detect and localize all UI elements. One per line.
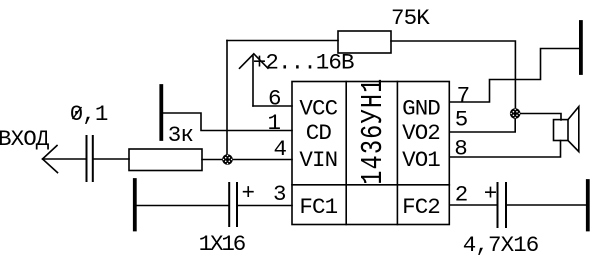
wire VO2 pin5 to node B	[449, 114, 515, 133]
svg-text:2: 2	[455, 182, 468, 208]
wire R1 to node A	[202, 159, 228, 161]
svg-text:+2...16В: +2...16В	[253, 50, 354, 76]
wire C3 to ground bar 4	[507, 204, 586, 206]
IC separator	[292, 184, 449, 186]
wire C1 to R1	[94, 158, 129, 160]
wire node A up to feedback	[226, 41, 228, 160]
svg-text:VIN: VIN	[299, 147, 337, 173]
speaker horn	[568, 107, 579, 152]
wire GND pin7 to ground bar 3	[449, 49, 579, 103]
svg-text:1: 1	[268, 110, 281, 136]
svg-text:4,7X16: 4,7X16	[463, 232, 539, 258]
IC inner line right	[396, 82, 398, 225]
svg-text:+: +	[484, 180, 497, 206]
ground bar 3	[579, 22, 583, 73]
IC U1 box	[292, 82, 449, 225]
wire C2 to ground bar 2	[137, 205, 228, 207]
node A junction dot	[222, 154, 233, 165]
svg-text:75K: 75K	[391, 5, 430, 31]
wire VO1 pin8 to speaker bottom	[449, 141, 560, 158]
speaker BA1 box	[554, 120, 569, 141]
wire VCC pin6	[253, 105, 292, 107]
svg-text:3: 3	[273, 181, 286, 207]
svg-text:3к: 3к	[168, 122, 194, 148]
svg-text:VO1: VO1	[402, 147, 440, 173]
svg-text:1X16: 1X16	[199, 231, 246, 257]
capacitor C1 0,1	[87, 136, 93, 181]
ground bar 1	[159, 86, 163, 139]
svg-text:8: 8	[454, 136, 467, 162]
svg-text:VCC: VCC	[299, 96, 337, 122]
resistor R1 3k	[129, 149, 202, 171]
svg-text:7: 7	[457, 83, 470, 109]
ground bar 4	[586, 181, 590, 230]
capacitor C2 1X16	[229, 183, 237, 226]
svg-text:5: 5	[455, 107, 468, 133]
svg-text:FC1: FC1	[299, 194, 337, 220]
svg-text:FC2: FC2	[402, 194, 440, 220]
svg-text:4: 4	[274, 136, 287, 162]
svg-text:GND: GND	[402, 96, 440, 122]
wire R2 to node B	[391, 41, 515, 114]
wire FC1 pin3 to C2	[238, 205, 292, 207]
capacitor C3 4,7X16	[498, 183, 507, 227]
input terminal VHOD arrow	[43, 146, 58, 173]
wire FC2 pin2 to C3	[449, 204, 496, 206]
wire input to C1	[43, 158, 86, 160]
svg-text:6: 6	[268, 86, 281, 112]
node B junction dot	[510, 108, 521, 119]
svg-text:VO2: VO2	[402, 120, 440, 146]
wire top to R2	[227, 40, 338, 42]
resistor R2 75K	[338, 31, 391, 53]
wire CD pin1 to ground	[163, 113, 292, 131]
wire node A to pin4 VIN	[228, 159, 293, 161]
svg-text:1436УН1: 1436УН1	[356, 78, 391, 185]
ground bar 2	[133, 180, 137, 230]
IC inner line left	[345, 82, 347, 225]
svg-text:+: +	[242, 180, 255, 206]
power arrow	[240, 54, 269, 106]
wire node B to speaker top	[515, 114, 561, 121]
svg-text:ВХОД: ВХОД	[0, 126, 50, 152]
svg-text:CD: CD	[306, 120, 332, 146]
